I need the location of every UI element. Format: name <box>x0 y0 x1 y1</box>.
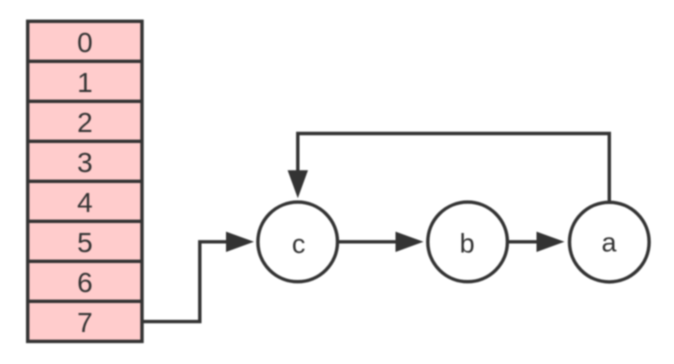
array index labels <box>77 27 93 338</box>
wire b to a <box>509 240 538 243</box>
svg-text:0: 0 <box>77 27 93 58</box>
svg-text:2: 2 <box>77 107 93 138</box>
node a circle <box>570 202 650 282</box>
svg-text:c: c <box>292 229 306 259</box>
svg-text:b: b <box>460 229 475 259</box>
svg-text:5: 5 <box>77 227 93 258</box>
svg-text:7: 7 <box>77 307 93 338</box>
svg-text:a: a <box>601 228 617 258</box>
svg-text:1: 1 <box>77 67 93 98</box>
back edge wire from a to above c <box>298 134 610 203</box>
node b circle <box>428 202 508 282</box>
wire c to b <box>339 240 397 243</box>
svg-text:3: 3 <box>77 147 93 178</box>
svg-text:4: 4 <box>77 187 93 218</box>
wire from cell 7 to node c <box>144 242 228 322</box>
array cell dividers <box>28 61 142 301</box>
node c circle <box>258 202 338 282</box>
arrowhead into node c (left) <box>226 232 254 252</box>
arrowhead into node b <box>396 232 424 252</box>
arrowhead into node c (top) <box>288 170 308 198</box>
arrowhead into node a <box>537 232 565 252</box>
array outer rectangle <box>28 21 142 341</box>
svg-text:6: 6 <box>77 267 93 298</box>
